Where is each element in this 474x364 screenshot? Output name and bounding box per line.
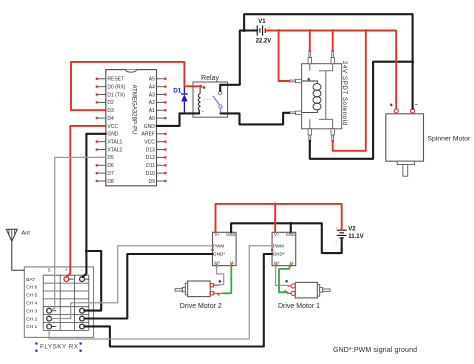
U1 right pin D13 (146, 147, 167, 153)
RX pin CH2 - (82, 318, 89, 320)
svg-text:A3: A3 (149, 92, 155, 98)
solenoid coil (302, 81, 318, 84)
svg-text:S: S (48, 267, 51, 272)
svg-text:+: + (65, 267, 68, 272)
RX pin BAT + (66, 278, 73, 280)
svg-text:CH 5: CH 5 (26, 293, 37, 299)
svg-text:D12: D12 (146, 155, 155, 161)
svg-text:D1: D1 (173, 87, 181, 94)
svg-text:11.1V: 11.1V (348, 234, 363, 240)
drive motor M1 (278, 280, 330, 310)
svg-text:D13: D13 (146, 147, 155, 153)
RX pin CH3 - (82, 310, 89, 312)
svg-text:CH 2: CH 2 (26, 316, 37, 322)
svg-text:D4: D4 (107, 116, 114, 122)
svg-text:D1 (TX): D1 (TX) (107, 92, 125, 98)
battery V2 11.1V (335, 226, 363, 244)
U1 right pin D10 (146, 171, 167, 177)
svg-text:A1: A1 (149, 108, 155, 114)
stub motor1 minus terminal (288, 292, 291, 294)
U1 left pin 6 D4 (96, 116, 114, 122)
svg-text:XTAL2: XTAL2 (107, 147, 122, 153)
ESC2 motor driver (211, 232, 236, 267)
relay coil (199, 88, 201, 94)
svg-text:GND*:PWM signal ground: GND*:PWM signal ground (333, 347, 417, 354)
svg-text:D9: D9 (148, 179, 155, 185)
U1 left pin 2 D0 (RX) (96, 85, 126, 91)
svg-text:22.2V: 22.2V (256, 39, 272, 45)
node V1 plus tap D (364, 29, 367, 32)
RX pin CH3 S (49, 310, 56, 312)
solenoid top pin x=332.7 (332, 51, 334, 58)
wire battery V1 minus rail to spinner motor minus (244, 14, 413, 109)
svg-text:D3: D3 (107, 108, 114, 114)
svg-text:+: + (335, 226, 338, 231)
svg-text:V1: V1 (258, 19, 266, 25)
U1 left pin 4 D2 (96, 100, 114, 106)
wire ESC2 M- to motor2 minus (223, 266, 231, 294)
U1 left pin 3 D1 (TX) (96, 92, 126, 98)
RX pin CH2 S (49, 318, 56, 320)
solenoid left pin y=81.0 (289, 80, 296, 82)
wire IC right GND to relay coil minus and diode (157, 113, 200, 126)
spinner motor M3 (386, 104, 471, 177)
U1 right pin A2 (149, 100, 167, 106)
U1 left pin 1 RESET (96, 77, 124, 83)
node V1 plus tap B (308, 29, 311, 32)
U1 right pin D12 (146, 155, 167, 161)
svg-text:D10: D10 (146, 171, 155, 177)
svg-text:Spinner Motor: Spinner Motor (428, 135, 471, 142)
svg-text:CH 4: CH 4 (26, 301, 37, 307)
U1 left pin 8 GND (98, 132, 119, 138)
svg-text:GND: GND (144, 124, 156, 130)
RX pin BAT - (82, 278, 89, 280)
U1 right pin AREF (142, 132, 167, 138)
antenna Ant (6, 229, 30, 270)
svg-text:D2: D2 (107, 100, 114, 106)
svg-text:ATMEGA328P-PU: ATMEGA328P-PU (130, 85, 136, 135)
stub motor2 minus terminal (214, 292, 223, 294)
svg-text:GND*: GND* (273, 251, 285, 256)
diode D1 (173, 86, 187, 113)
IC U1 ATMEGA328P-PU body (106, 70, 157, 186)
stub motor2 plus terminal (214, 284, 219, 286)
wire ESC1 M+ to motor1 plus (276, 266, 288, 286)
relay K1 (193, 75, 228, 117)
wire ESC1 GND tap (290, 223, 292, 232)
wire V1 plus tap to solenoid top-right pin (332, 31, 334, 52)
U1 right pin A4 (149, 85, 167, 91)
stub motor1 plus terminal (288, 285, 290, 287)
node ESC V+ rail junction (274, 203, 277, 206)
svg-text:D6: D6 (107, 163, 114, 169)
relay switch contacts (219, 88, 221, 91)
wire solenoid bottom-right pin to V1 plus rail (333, 31, 366, 151)
U1 right pin D11 (146, 163, 166, 169)
battery V1 22.2V (253, 19, 271, 44)
node BAT- branch junction (85, 250, 88, 253)
wire IC D3 to relay coil plus (71, 62, 201, 110)
wire ESC2 M+ to motor2 plus (217, 266, 224, 285)
U1 left pin 12 D6 (96, 163, 114, 169)
svg-text:CH 6: CH 6 (26, 285, 37, 291)
receiver FLYSKY RX (24, 267, 93, 352)
svg-text:XTAL1: XTAL1 (107, 140, 122, 146)
wire antenna to RX (12, 241, 24, 270)
svg-text:CH 3: CH 3 (26, 308, 37, 314)
svg-text:Ant: Ant (22, 231, 31, 237)
node V1 plus tap A (277, 29, 280, 32)
solenoid bottom pin x=332.7 (331, 129, 334, 135)
solenoid bottom pin x=309.8 (308, 129, 311, 135)
svg-text:D7: D7 (107, 171, 114, 177)
wire RX CH1 - to ESC1 GND* (84, 254, 272, 347)
wire V1 plus tap to solenoid top-left pin (309, 31, 311, 52)
U1 left pin 7 VCC (98, 124, 119, 130)
wire IC left GND down to RX BAT- (83, 134, 106, 277)
U1 right pin A1 (149, 108, 167, 114)
svg-text:AREF: AREF (142, 132, 155, 138)
drive motor M2 (175, 280, 222, 310)
svg-text:VCC: VCC (107, 124, 118, 130)
ESC1 motor driver (271, 232, 296, 267)
svg-text:A5: A5 (149, 77, 155, 83)
svg-text:Relay: Relay (201, 75, 219, 82)
wire ESC1 V+ tap (274, 204, 276, 232)
U1 right pin A3 (149, 92, 167, 98)
U1 left pin 11 D5 (98, 155, 114, 161)
wire solenoid bottom-left pin to spinner minus node (310, 62, 413, 159)
svg-text:D0 (RX): D0 (RX) (107, 85, 125, 91)
svg-text:BAT: BAT (26, 277, 35, 283)
wire RX CH2 S to ESC2 PWM (52, 246, 213, 319)
U1 right pin A5 (149, 77, 167, 83)
svg-text:D11: D11 (146, 163, 155, 169)
wire RX CH1 S to ESC1 PWM (49, 246, 272, 339)
svg-text:D5: D5 (107, 155, 114, 161)
solenoid left pin y=112.8 (289, 112, 296, 114)
U1 left pin 13 D7 (96, 171, 114, 177)
solenoid armature (310, 64, 333, 129)
wire battery V1 plus rail to spinner motor plus (265, 31, 396, 109)
U1 left pin 14 D8 (96, 179, 114, 185)
node V1 minus junction (243, 29, 246, 32)
node ESC GND rail junction (289, 222, 292, 225)
svg-text:V2: V2 (348, 227, 356, 233)
solenoid top pin x=309.8 (309, 51, 311, 58)
svg-text:A2: A2 (149, 100, 155, 106)
svg-text:A0: A0 (149, 116, 155, 122)
svg-text:FLYSKY RX: FLYSKY RX (40, 343, 79, 350)
wire IC D5 to RX CH3 S (51, 157, 106, 310)
wire ESC GND rail to battery V2 minus (231, 223, 342, 253)
wire ESC1 M- to motor1 minus (279, 266, 289, 293)
node spinner minus junction (411, 60, 414, 63)
RX pin CH1 S (49, 326, 56, 328)
wire IC VCC to RX BAT+ (67, 126, 106, 277)
wire relay switch NO to solenoid lower-left pin (221, 113, 290, 125)
wire battery V1 minus to relay switch common (220, 31, 257, 92)
svg-text:Drive Motor 1: Drive Motor 1 (278, 303, 320, 310)
svg-text:Drive Motor 2: Drive Motor 2 (180, 303, 222, 310)
wire RX CH2 - to ESC2 GND* (84, 254, 212, 319)
wire battery V2 plus rail to ESC V+ pins (216, 204, 342, 232)
wire V1 plus tap to solenoid upper-left pin (279, 31, 290, 82)
U1 left pin 5 D3 (98, 108, 114, 114)
svg-text:PWM: PWM (273, 243, 284, 248)
solenoid LS1 24V SPDT (289, 51, 348, 142)
svg-text:GND*: GND* (213, 251, 225, 256)
svg-text:RESET: RESET (107, 77, 124, 83)
svg-text:D8: D8 (107, 179, 114, 185)
node relay coil plus wire end (199, 85, 202, 88)
U1 right pin VCC (144, 140, 166, 146)
U1 left pin 9 XTAL1 (96, 140, 123, 146)
node V1 plus tap C (331, 29, 334, 32)
svg-text:VCC: VCC (144, 140, 155, 146)
U1 left pin 10 XTAL2 (96, 147, 123, 153)
U1 right pin D9 (148, 179, 166, 185)
svg-text:24V SPDT Solenoid: 24V SPDT Solenoid (341, 61, 348, 125)
wire BAT- branch to RX CH3 - (84, 251, 101, 311)
U1 right pin GND (144, 124, 165, 130)
svg-text:GND: GND (107, 132, 119, 138)
svg-text:CH 1: CH 1 (26, 324, 37, 330)
svg-text:PWM: PWM (213, 243, 224, 248)
svg-text:A4: A4 (149, 85, 155, 91)
RX pin CH1 - (82, 326, 89, 328)
U1 right pin A0 (149, 116, 167, 122)
